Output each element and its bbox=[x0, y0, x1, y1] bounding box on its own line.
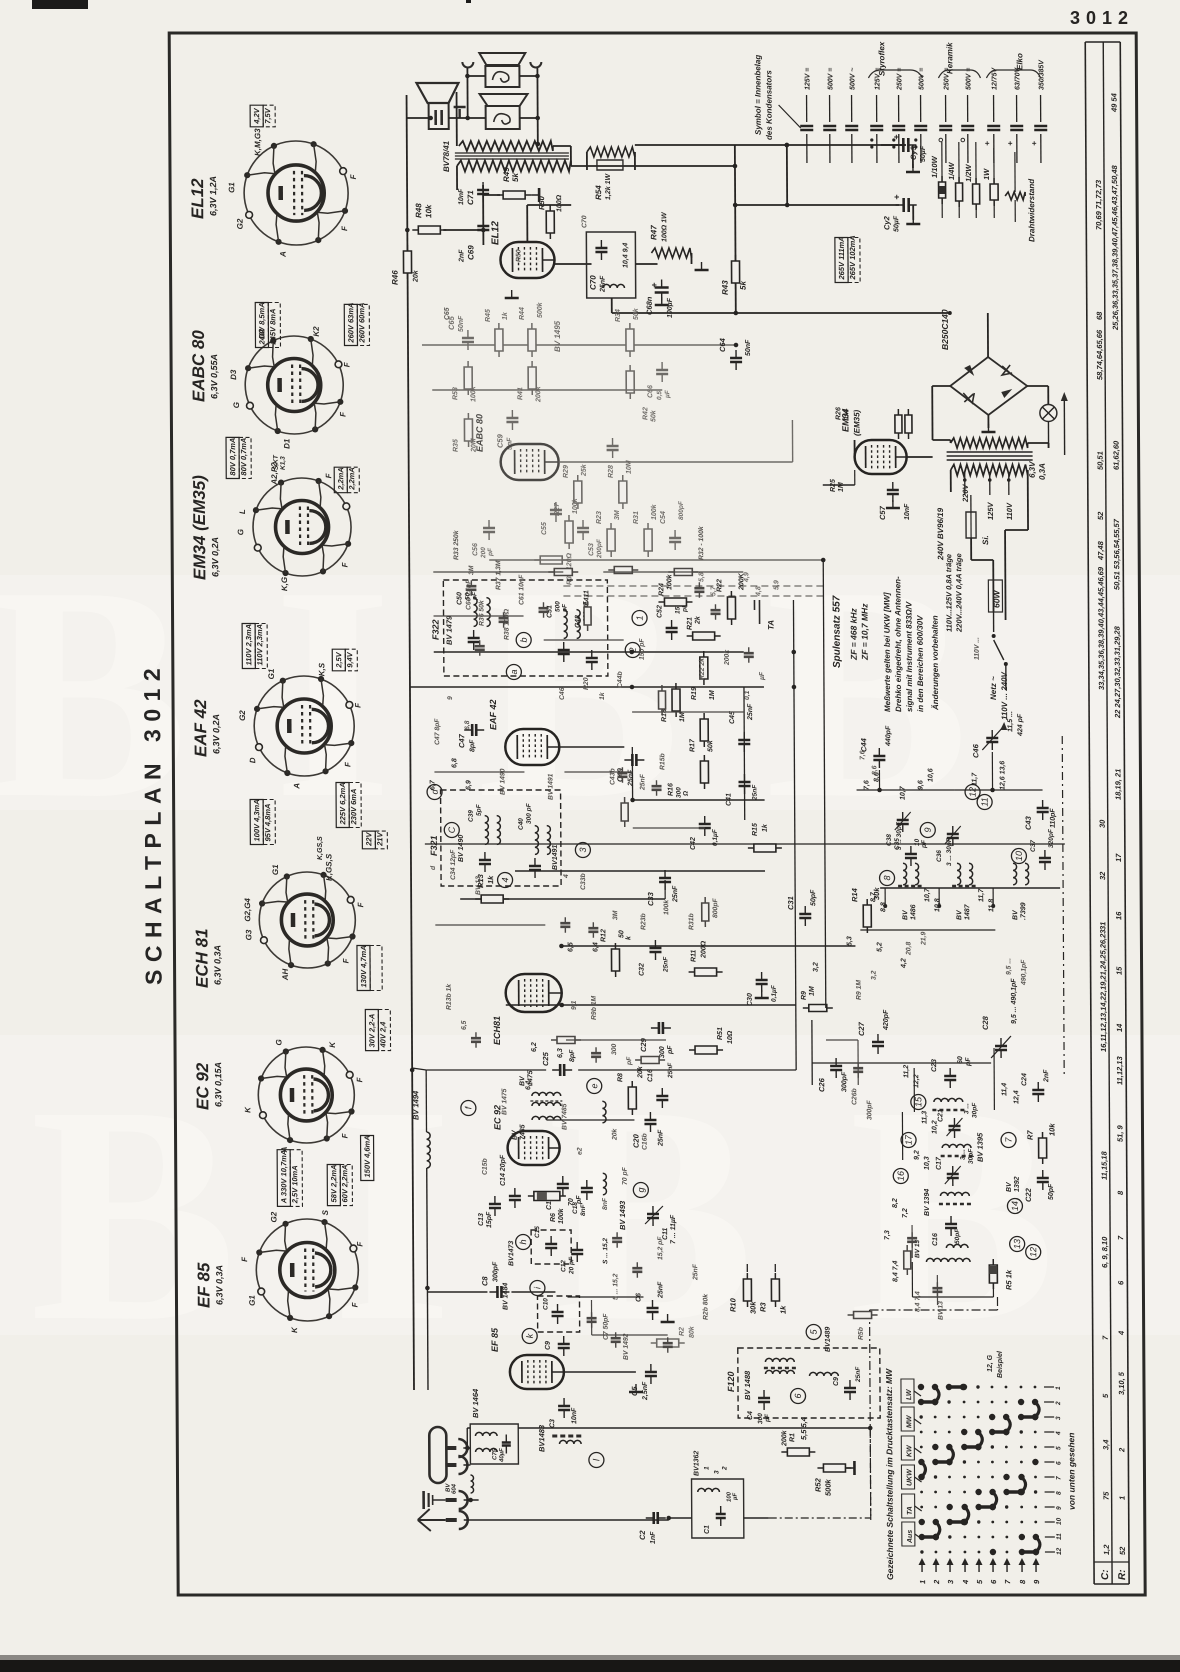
svg-text:11: 11 bbox=[1056, 1533, 1063, 1540]
transformer ends bbox=[950, 470, 952, 492]
capacitor C16b 50pF bbox=[945, 1216, 957, 1236]
wire cluster verticals bbox=[993, 1048, 995, 1110]
svg-text:TA: TA bbox=[767, 620, 776, 630]
svg-text:BV 1484: BV 1484 bbox=[502, 1283, 509, 1310]
svg-text:R10: R10 bbox=[728, 1297, 737, 1312]
svg-text:500V ~: 500V ~ bbox=[849, 68, 856, 90]
resistor bbox=[621, 797, 628, 827]
capacitor C59 5nF bbox=[506, 410, 518, 430]
svg-text:11,7: 11,7 bbox=[971, 772, 978, 786]
resistor bbox=[904, 1245, 911, 1275]
coil BV1493 bbox=[603, 1173, 607, 1195]
svg-text:2k: 2k bbox=[695, 615, 702, 625]
capacitor bbox=[538, 602, 548, 618]
svg-text:G1: G1 bbox=[227, 182, 236, 193]
svg-text:1W: 1W bbox=[982, 168, 991, 180]
svg-text:R41: R41 bbox=[517, 387, 524, 400]
svg-text:3M: 3M bbox=[612, 910, 619, 920]
svg-text:C59: C59 bbox=[495, 433, 504, 448]
svg-text:pF: pF bbox=[561, 603, 568, 613]
svg-text:100Ω 1W: 100Ω 1W bbox=[661, 211, 668, 242]
svg-text:C64: C64 bbox=[718, 337, 727, 352]
svg-text:C70: C70 bbox=[589, 275, 598, 290]
capacitor bbox=[710, 604, 720, 620]
svg-text:µF: µF bbox=[733, 1493, 739, 1501]
svg-text:3012: 3012 bbox=[1070, 8, 1134, 28]
svg-text:8nF: 8nF bbox=[580, 1203, 587, 1216]
svg-text:R35: R35 bbox=[453, 439, 460, 452]
svg-text:604: 604 bbox=[452, 1483, 458, 1494]
svg-text:1k: 1k bbox=[599, 691, 606, 700]
wire EM34 row bbox=[854, 440, 856, 459]
coil group BV1399 bbox=[1013, 863, 1017, 885]
speaker LS bbox=[416, 83, 458, 129]
svg-text:C15b: C15b bbox=[482, 1158, 489, 1175]
wire bbox=[603, 571, 743, 573]
svg-text:15pF: 15pF bbox=[486, 1211, 493, 1228]
wire R48 to C69/C71 bbox=[443, 229, 483, 231]
svg-text:C21: C21 bbox=[937, 1109, 944, 1122]
svg-text:50: 50 bbox=[618, 930, 625, 938]
resistor bbox=[702, 897, 709, 927]
value box ECH81 screen bbox=[250, 799, 275, 844]
svg-text:6,3V 1,2A: 6,3V 1,2A bbox=[208, 176, 218, 216]
svg-text:R16: R16 bbox=[668, 783, 675, 796]
capacitor C53 200pF bbox=[577, 520, 589, 540]
svg-text:7: 7 bbox=[1056, 1476, 1063, 1480]
svg-text:BV 1464: BV 1464 bbox=[471, 1388, 480, 1418]
svg-text:3,2: 3,2 bbox=[871, 970, 878, 980]
svg-text:1,2k 1W: 1,2k 1W bbox=[605, 173, 612, 200]
scan strip bottom bbox=[0, 1655, 1180, 1660]
svg-text:3,10, 5: 3,10, 5 bbox=[1117, 1371, 1126, 1395]
capacitor C37 320pF bbox=[1039, 850, 1051, 870]
svg-text:1: 1 bbox=[635, 615, 645, 620]
svg-text:6,3V 0,2A: 6,3V 0,2A bbox=[211, 714, 221, 754]
svg-text:R31b: R31b bbox=[688, 913, 695, 930]
resistor R13 1k bbox=[475, 895, 509, 903]
svg-text:R9b 1M: R9b 1M bbox=[591, 995, 598, 1020]
svg-text:C: C bbox=[447, 826, 457, 833]
svg-text:b: b bbox=[519, 637, 529, 642]
svg-text:125V: 125V bbox=[986, 501, 995, 520]
svg-text:C28: C28 bbox=[981, 1015, 990, 1030]
svg-text:R1: R1 bbox=[789, 1433, 796, 1442]
switch label Aus bbox=[902, 1522, 915, 1546]
svg-text:130V 4,7mA: 130V 4,7mA bbox=[359, 945, 368, 987]
wire y1297 row bbox=[567, 1296, 643, 1298]
svg-text:110V: 110V bbox=[1005, 502, 1014, 520]
svg-text:25nF: 25nF bbox=[747, 703, 754, 721]
svg-text:6,5: 6,5 bbox=[567, 942, 574, 952]
svg-text:12, G: 12, G bbox=[987, 1354, 994, 1372]
capacitor bbox=[466, 580, 476, 596]
svg-text:(EM35): (EM35) bbox=[852, 409, 861, 436]
resistor R18 1M bbox=[672, 683, 680, 717]
svg-text:R37 1,3M: R37 1,3M bbox=[495, 560, 502, 590]
svg-text:200Ω: 200Ω bbox=[700, 940, 707, 959]
resistor R42 50k bbox=[626, 365, 634, 399]
svg-text:in den Bereichen 600/30V: in den Bereichen 600/30V bbox=[916, 615, 926, 712]
svg-text:a: a bbox=[509, 669, 519, 674]
svg-text:C16: C16 bbox=[932, 1233, 939, 1246]
svg-text:R8: R8 bbox=[617, 1073, 624, 1082]
svg-text:16,11,12,13,14,22,19,21,24,25,: 16,11,12,13,14,22,19,21,24,25,26,23 bbox=[1098, 929, 1108, 1052]
svg-text:7 ... 11µF: 7 ... 11µF bbox=[670, 1214, 677, 1244]
svg-text:R28: R28 bbox=[608, 465, 615, 478]
watermark band row 2 bbox=[0, 1035, 1180, 1335]
svg-text:100k: 100k bbox=[666, 573, 673, 590]
svg-text:5: 5 bbox=[1055, 1446, 1062, 1450]
svg-text:3: 3 bbox=[578, 847, 588, 852]
capacitor C25 8pF bbox=[552, 1064, 572, 1076]
capacitor bbox=[663, 1337, 673, 1353]
svg-text:8,7: 8,7 bbox=[870, 891, 877, 902]
svg-text:R50: R50 bbox=[537, 195, 546, 210]
svg-text:Gezeichnete Schaltstellung im: Gezeichnete Schaltstellung im Drucktaste… bbox=[884, 1368, 895, 1580]
svg-text:1: 1 bbox=[703, 1466, 710, 1470]
capacitor bbox=[744, 647, 754, 663]
circled 16 bbox=[893, 1169, 908, 1184]
C1 box bbox=[692, 1479, 744, 1538]
svg-text:100V 4,3mA: 100V 4,3mA bbox=[252, 799, 261, 841]
power transformer BV96/19 secondary bbox=[951, 438, 1028, 448]
svg-text:C1: C1 bbox=[704, 1525, 711, 1534]
svg-text:50pF: 50pF bbox=[810, 889, 817, 906]
svg-text:C46: C46 bbox=[971, 743, 980, 758]
tube pinout ECH 81 bbox=[259, 872, 356, 968]
svg-text:C56: C56 bbox=[472, 543, 479, 556]
switch label LW bbox=[901, 1379, 914, 1403]
svg-text:300pF: 300pF bbox=[866, 1100, 873, 1120]
svg-text:F321: F321 bbox=[429, 835, 439, 856]
svg-text:EM34 (EM35): EM34 (EM35) bbox=[190, 475, 210, 580]
wire ECH81 anode row y946 bbox=[561, 945, 855, 947]
F321 caps C39 C40 bbox=[479, 852, 491, 872]
svg-text:265V 111mA: 265V 111mA bbox=[837, 236, 846, 280]
chassis tick bbox=[454, 107, 466, 118]
capacitor C3 10nF bbox=[558, 1398, 570, 1418]
svg-text:+: + bbox=[985, 139, 990, 148]
svg-text:C12: C12 bbox=[560, 1260, 567, 1272]
resistor R52 500k bbox=[817, 1464, 851, 1472]
svg-text:R51: R51 bbox=[717, 1027, 724, 1040]
resistor R30 120Ω bbox=[534, 556, 568, 564]
svg-text:50pF: 50pF bbox=[1048, 1183, 1055, 1200]
tube pinout EAF 42 bbox=[254, 676, 355, 776]
circled d bbox=[427, 785, 442, 800]
svg-text:R50: R50 bbox=[515, 249, 522, 262]
value box EL12 anode currents bbox=[255, 302, 280, 347]
capacitor C4 300pF bbox=[758, 1390, 770, 1410]
svg-text:BV 1395: BV 1395 bbox=[976, 1132, 985, 1162]
svg-text:C55: C55 bbox=[541, 522, 548, 535]
svg-text:R23b: R23b bbox=[640, 913, 647, 930]
wire bus y899 bbox=[460, 898, 665, 900]
capacitor bbox=[611, 1332, 621, 1348]
svg-text:SCHALTPLAN 3012: SCHALTPLAN 3012 bbox=[139, 661, 167, 985]
resistor R41 200k bbox=[528, 361, 536, 395]
svg-text:C61 10nF: C61 10nF bbox=[518, 574, 525, 605]
svg-text:EABC 80: EABC 80 bbox=[189, 330, 208, 402]
ground C68 bbox=[655, 297, 669, 305]
tube EABC80 symbol bbox=[501, 444, 559, 480]
svg-text:R31: R31 bbox=[633, 511, 640, 524]
capacitor bbox=[853, 1062, 863, 1078]
capacitor C32 25nF bbox=[649, 940, 661, 960]
svg-text:C17: C17 bbox=[936, 1156, 943, 1170]
resistor R51 10Ω bbox=[689, 1046, 723, 1054]
svg-text:6,2: 6,2 bbox=[531, 1042, 538, 1052]
svg-text:4,2: 4,2 bbox=[901, 958, 908, 969]
svg-text:11,3: 11,3 bbox=[921, 1111, 928, 1124]
svg-text:7,5V: 7,5V bbox=[263, 107, 272, 123]
circled l bbox=[589, 1453, 604, 1468]
svg-text:50,51 53,56,54,55,57: 50,51 53,56,54,55,57 bbox=[1112, 518, 1121, 590]
svg-text:16: 16 bbox=[1114, 911, 1123, 920]
capacitor bbox=[591, 1047, 601, 1063]
svg-text:R2b 80k: R2b 80k bbox=[702, 1293, 709, 1320]
resistor bbox=[668, 569, 698, 576]
svg-text:4,2V: 4,2V bbox=[252, 107, 261, 124]
wire bus y652 bbox=[434, 651, 744, 653]
svg-text:B250C140: B250C140 bbox=[940, 309, 950, 350]
wire bbox=[434, 771, 524, 773]
tube pinout EM34 (EM35) bbox=[253, 478, 352, 576]
svg-text:C26b: C26b bbox=[851, 1088, 858, 1105]
svg-text:225V 6,2mA: 225V 6,2mA bbox=[338, 782, 347, 825]
capacitor C57 10nF bbox=[887, 482, 899, 502]
svg-text:C24: C24 bbox=[1021, 1073, 1028, 1086]
coil group BV1486 bbox=[903, 863, 907, 885]
legend capacitor 500V = bbox=[920, 95, 922, 122]
capacitor C9b 25nF bbox=[844, 1380, 856, 1400]
capacitor C58 500pF bbox=[607, 438, 619, 458]
dashed bus y596 bbox=[563, 595, 825, 597]
svg-text:BV 1495: BV 1495 bbox=[553, 320, 562, 352]
svg-text:R12: R12 bbox=[600, 929, 607, 942]
svg-text:12: 12 bbox=[1056, 1547, 1063, 1555]
capacitor C66 0,5µF bbox=[656, 362, 668, 382]
wire driver vertical right bbox=[536, 68, 538, 144]
svg-text:R36 50k: R36 50k bbox=[478, 599, 485, 626]
resistor R48 10k bbox=[412, 226, 446, 234]
svg-text:C44b: C44b bbox=[617, 671, 624, 688]
value box EL12 screen bbox=[344, 303, 369, 346]
wire left bus lower bbox=[412, 1068, 426, 1070]
svg-text:LW: LW bbox=[906, 1388, 913, 1400]
svg-text:110V ...: 110V ... bbox=[974, 637, 981, 660]
circled 5 bbox=[806, 1325, 821, 1340]
svg-text:33,34,35,36,38,39,40,43,44,45,: 33,34,35,36,38,39,40,43,44,45,46,69 bbox=[1096, 566, 1106, 690]
wire bbox=[564, 771, 632, 773]
svg-text:25nF: 25nF bbox=[672, 885, 679, 903]
ground C6 bbox=[661, 1314, 675, 1322]
dash-dot wire to switch bbox=[769, 1517, 871, 1519]
svg-text:C75: C75 bbox=[492, 1448, 498, 1460]
svg-text:C54: C54 bbox=[660, 511, 667, 524]
capacitor C2 1nF bbox=[646, 1512, 666, 1524]
svg-text:5,9: 5,9 bbox=[773, 580, 780, 590]
capacitor C71 10nF bbox=[477, 182, 489, 202]
svg-text:5k: 5k bbox=[739, 281, 748, 290]
svg-text:500V =: 500V = bbox=[918, 68, 925, 90]
svg-text:2: 2 bbox=[1055, 1401, 1062, 1406]
svg-text:3M: 3M bbox=[614, 510, 621, 520]
svg-text:Symbol = Innenbelag: Symbol = Innenbelag bbox=[753, 55, 762, 135]
legend resistor 1/10W bbox=[941, 142, 943, 218]
svg-text:R6: R6 bbox=[550, 1213, 557, 1222]
svg-text:C36: C36 bbox=[936, 850, 943, 862]
svg-text:5,2: 5,2 bbox=[876, 942, 883, 952]
capacitor C16 25nF bbox=[656, 1088, 668, 1108]
resistor R17 50k bbox=[700, 713, 708, 747]
capacitor bbox=[560, 917, 570, 933]
circled 13 bbox=[1010, 1237, 1025, 1252]
svg-text:265V 102mA: 265V 102mA bbox=[848, 235, 857, 280]
svg-text:C50: C50 bbox=[456, 592, 463, 605]
svg-text:C32: C32 bbox=[639, 963, 646, 976]
svg-text:K2: K2 bbox=[312, 326, 321, 337]
svg-text:8: 8 bbox=[882, 875, 892, 880]
wire EABC80 out bbox=[559, 461, 613, 463]
resistor R1 200k bbox=[781, 1448, 815, 1456]
resistor R43 5k bbox=[731, 255, 739, 289]
svg-text:9,2: 9,2 bbox=[914, 1150, 921, 1160]
tube pinout EL12 bbox=[244, 141, 349, 245]
value box 265V currents bbox=[835, 235, 860, 282]
svg-text:14: 14 bbox=[1115, 1023, 1124, 1032]
svg-text:C52: C52 bbox=[656, 605, 663, 618]
value box EC92 anode bbox=[277, 1150, 302, 1207]
svg-text:80V 0,7mA: 80V 0,7mA bbox=[228, 438, 237, 476]
svg-text:6: 6 bbox=[1055, 1461, 1062, 1465]
resistor R11 200Ω bbox=[689, 968, 723, 976]
wire bbox=[632, 711, 744, 713]
svg-text:40µF: 40µF bbox=[499, 1448, 505, 1463]
svg-text:G: G bbox=[236, 529, 245, 535]
coil BV139x bottom bbox=[926, 1258, 948, 1262]
coil small right bbox=[602, 1101, 606, 1123]
svg-text:R14: R14 bbox=[850, 887, 859, 902]
svg-text:2: 2 bbox=[1117, 1447, 1126, 1453]
circled g bbox=[633, 1183, 648, 1198]
pin labels EF 85 bbox=[240, 1209, 365, 1333]
svg-text:30pF: 30pF bbox=[968, 1148, 975, 1164]
svg-text:20k: 20k bbox=[611, 1127, 618, 1141]
svg-text:10nF: 10nF bbox=[458, 188, 465, 205]
svg-text:10: 10 bbox=[1014, 851, 1024, 861]
svg-text:5,8: 5,8 bbox=[698, 572, 705, 582]
svg-text:C27: C27 bbox=[857, 1021, 866, 1036]
svg-text:h: h bbox=[518, 1239, 528, 1244]
svg-text:C66: C66 bbox=[647, 385, 654, 398]
svg-text:C9: C9 bbox=[833, 1377, 840, 1386]
svg-text:TA: TA bbox=[907, 1506, 914, 1515]
resistor R15 1k bbox=[748, 844, 782, 852]
svg-text:100k: 100k bbox=[572, 497, 579, 514]
svg-text:BV1489: BV1489 bbox=[825, 1327, 832, 1352]
svg-text:G1: G1 bbox=[248, 1295, 257, 1306]
wire x660 vertical bbox=[664, 880, 666, 899]
dash-dot boundary switch block bbox=[870, 1310, 871, 1520]
svg-text:2: 2 bbox=[932, 1579, 941, 1585]
electrolytic C68 100µF bbox=[655, 280, 669, 301]
wire drivers bus y76 bbox=[467, 75, 485, 77]
svg-text:Drehko eingedreht, ohne Antenn: Drehko eingedreht, ohne Antennen- bbox=[893, 576, 903, 712]
wire bbox=[826, 1039, 858, 1041]
resistor bbox=[608, 567, 638, 574]
svg-text:9: 9 bbox=[1056, 1506, 1063, 1510]
svg-text:95V 4,8mA: 95V 4,8mA bbox=[263, 804, 272, 842]
wire fuse to switch bbox=[970, 538, 972, 560]
svg-text:3,4: 3,4 bbox=[1101, 1439, 1110, 1450]
svg-text:30k: 30k bbox=[748, 1301, 757, 1314]
svg-text:R29: R29 bbox=[563, 465, 570, 478]
svg-text:ECH81: ECH81 bbox=[492, 1016, 502, 1045]
capacitor C42 0,1µF bbox=[699, 816, 711, 836]
F322 coil 1 bbox=[473, 598, 477, 627]
svg-text:230V 6mA: 230V 6mA bbox=[349, 789, 358, 826]
ground EL12 grid bbox=[505, 290, 519, 298]
tube EM34 symbol bbox=[855, 440, 907, 474]
svg-text:1: 1 bbox=[918, 1580, 927, 1584]
wire ground row bbox=[464, 1499, 479, 1501]
svg-text:1M: 1M bbox=[679, 712, 686, 722]
F321 coils bbox=[485, 816, 489, 845]
svg-text:200k: 200k bbox=[724, 649, 731, 666]
svg-text:50nF: 50nF bbox=[745, 339, 752, 356]
svg-text:100µF: 100µF bbox=[667, 297, 674, 318]
circled 2 bbox=[625, 643, 640, 658]
wire transformer to bus bbox=[571, 165, 735, 167]
svg-text:6,3V: 6,3V bbox=[1028, 461, 1037, 478]
scan dot top bbox=[466, 0, 471, 3]
svg-text:R44: R44 bbox=[519, 307, 526, 320]
svg-text:C26: C26 bbox=[817, 1077, 826, 1092]
electrolytic Cy2 50µF bbox=[735, 204, 899, 206]
resistor R23 3M bbox=[607, 523, 615, 557]
svg-text:100k: 100k bbox=[558, 1207, 565, 1224]
svg-text:4,8: 4,8 bbox=[755, 586, 762, 597]
value box EABC80 currents bbox=[226, 437, 251, 478]
resistor R7 10k bbox=[1039, 1132, 1047, 1164]
svg-text:R22 2k: R22 2k bbox=[699, 657, 706, 680]
svg-text:80k: 80k bbox=[689, 1325, 696, 1338]
oscillator coils BV1475 bbox=[532, 1092, 561, 1096]
wire EL12 anode bbox=[526, 205, 528, 242]
coil BV1485 bbox=[532, 1116, 561, 1120]
socket TA bbox=[754, 600, 759, 624]
svg-text:6,9: 6,9 bbox=[465, 780, 472, 790]
value box EAF42 低 bbox=[362, 831, 387, 849]
pin labels EL12 bbox=[227, 128, 358, 258]
circled a bbox=[506, 665, 521, 680]
wire left bus to EF85 bbox=[427, 1168, 428, 1390]
capacitor C18 8nF bbox=[581, 1180, 593, 1200]
svg-text:10,7: 10,7 bbox=[924, 887, 931, 902]
svg-text:300pF: 300pF bbox=[841, 1071, 848, 1092]
wire bbox=[435, 924, 545, 926]
resistor R29 25k bbox=[574, 475, 582, 509]
svg-text:8pF: 8pF bbox=[469, 739, 476, 752]
svg-text:0,5: 0,5 bbox=[656, 391, 663, 400]
svg-text:1M: 1M bbox=[838, 482, 845, 492]
hook left bbox=[462, 62, 473, 68]
svg-text:C:: C: bbox=[1100, 1569, 1111, 1580]
svg-text:8,6: 8,6 bbox=[871, 765, 878, 775]
svg-text:17: 17 bbox=[1114, 853, 1123, 862]
